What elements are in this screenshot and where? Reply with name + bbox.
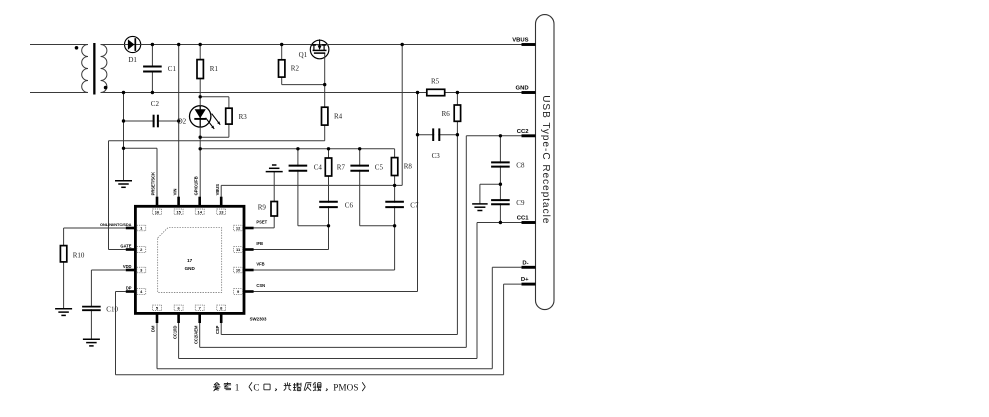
svg-text:D-: D- <box>522 260 528 266</box>
svg-text:C6: C6 <box>345 201 354 209</box>
svg-text:C3: C3 <box>432 152 441 160</box>
svg-text:DP: DP <box>126 285 132 290</box>
svg-text:14: 14 <box>197 209 202 214</box>
svg-text:VBUS: VBUS <box>215 184 220 196</box>
svg-text:C2: C2 <box>151 100 160 108</box>
svg-text:ONL/NI/NTC/SDA: ONL/NI/NTC/SDA <box>100 222 132 227</box>
svg-text:C4: C4 <box>314 164 323 172</box>
svg-text:R5: R5 <box>431 78 440 86</box>
svg-text:D2: D2 <box>178 118 187 126</box>
svg-text:DM: DM <box>151 325 156 332</box>
svg-text:USB Type-C Receptacle: USB Type-C Receptacle <box>540 95 551 224</box>
svg-text:CC1: CC1 <box>517 216 530 222</box>
svg-text:17: 17 <box>187 258 193 263</box>
svg-text:CC2/AEM: CC2/AEM <box>193 325 198 344</box>
svg-text:R10: R10 <box>73 252 85 260</box>
svg-text:C8: C8 <box>516 162 525 170</box>
svg-text:C5: C5 <box>375 164 384 172</box>
svg-text:PRSET/SCK: PRSET/SCK <box>151 172 156 195</box>
svg-text:GATE: GATE <box>120 243 131 248</box>
svg-text:Q1: Q1 <box>299 51 308 59</box>
svg-text:GND: GND <box>516 86 529 92</box>
svg-text:15: 15 <box>176 209 181 214</box>
svg-text:VFB: VFB <box>256 262 264 267</box>
svg-text:R8: R8 <box>404 163 413 171</box>
svg-text:CC2: CC2 <box>517 129 530 135</box>
svg-text:R2: R2 <box>291 65 300 73</box>
svg-text:D+: D+ <box>521 277 529 283</box>
svg-text:PMOS: PMOS <box>333 382 358 392</box>
svg-text:1: 1 <box>235 382 240 392</box>
svg-text:IFB: IFB <box>256 241 263 246</box>
svg-text:10: 10 <box>236 268 241 273</box>
svg-text:VDD: VDD <box>123 264 132 269</box>
svg-text:R9: R9 <box>258 203 267 211</box>
svg-text:C1: C1 <box>168 65 177 73</box>
svg-text:13: 13 <box>219 209 224 214</box>
svg-text:CSP: CSP <box>215 325 220 334</box>
svg-text:CC1/ID: CC1/ID <box>172 326 177 339</box>
svg-text:C7: C7 <box>410 201 419 209</box>
svg-text:R4: R4 <box>334 113 343 121</box>
svg-text:VBUS: VBUS <box>512 38 528 44</box>
svg-text:PSET: PSET <box>256 220 267 225</box>
svg-text:C9: C9 <box>516 199 525 207</box>
svg-text:R3: R3 <box>239 113 248 121</box>
svg-text:D1: D1 <box>128 56 137 64</box>
svg-text:C10: C10 <box>106 306 118 314</box>
svg-text:12: 12 <box>236 226 241 231</box>
svg-text:R6: R6 <box>442 110 451 118</box>
svg-text:C: C <box>253 382 259 392</box>
svg-text:16: 16 <box>155 209 160 214</box>
svg-text:R1: R1 <box>210 65 219 73</box>
svg-text:GND: GND <box>185 266 196 271</box>
svg-text:SW2303: SW2303 <box>250 316 267 321</box>
svg-text:CSN: CSN <box>256 283 265 288</box>
svg-text:VIN: VIN <box>172 189 177 196</box>
svg-text:GPIO1/FB: GPIO1/FB <box>193 176 198 195</box>
svg-text:R7: R7 <box>337 164 346 172</box>
